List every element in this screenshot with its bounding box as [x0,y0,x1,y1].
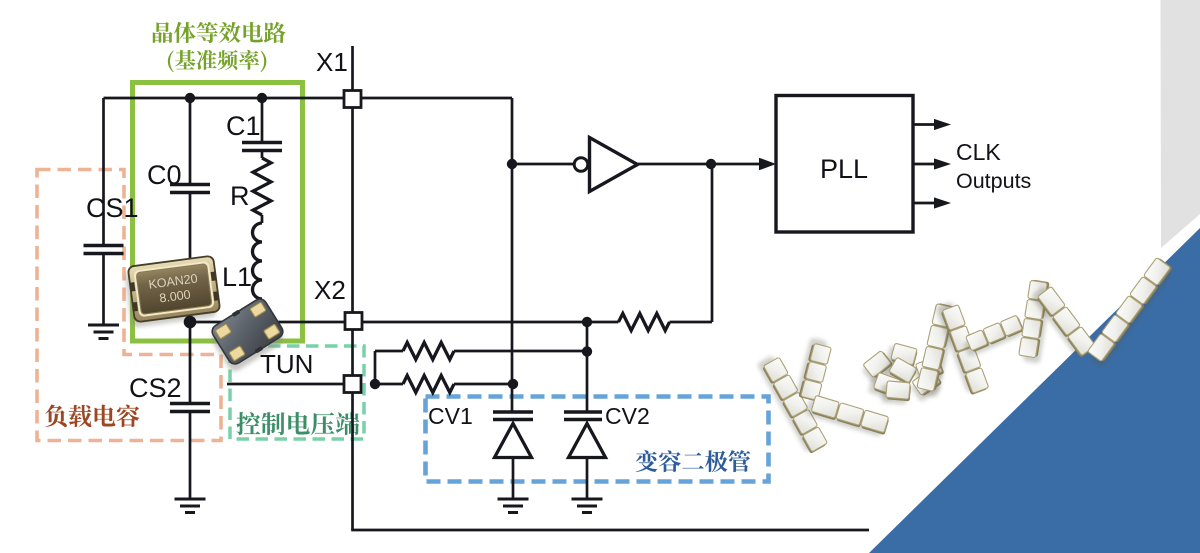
wire: CS1 to ground [102,254,105,326]
node: top bus / C1 [257,93,267,103]
node: lower R / CV1 [508,379,518,389]
resistor lower (to CV1) [403,376,454,393]
capacitor C0 [170,185,210,193]
inverter U1 triangle [590,138,638,192]
watermark letter A (crystal tiles) [921,307,958,398]
wire: inverter output to PLL [638,163,760,166]
ground: CS2 [175,499,206,513]
ground: CV2 [572,499,603,513]
svg-text:R: R [230,181,250,211]
inductor L1 [253,223,263,299]
wire: control line into TUN [227,383,344,386]
decorative gray corner pennant [1161,0,1200,248]
wire: drop from top bus to inverter input [511,98,514,164]
label (基准频率) [168,50,266,73]
wire: TUN down to bottom bus [351,393,354,531]
capacitor CS2 [170,404,210,412]
svg-text:TUN: TUN [260,349,313,379]
node: TUN [370,379,380,389]
wire: CS2 column [189,322,192,499]
arrow into PLL [759,158,776,171]
wire: lower R row [375,383,513,386]
svg-text:CLK: CLK [956,139,1001,165]
svg-text:PLL: PLL [820,154,868,184]
resistor feedback [619,314,670,331]
label 变容二极管 [636,450,751,472]
wire: C0 column [189,98,192,322]
capacitor C1 [242,143,282,151]
node: top bus / C0 [185,93,195,103]
wire: CV2 column drop [586,322,589,412]
varactor CV2 [564,412,602,420]
wire: TUN node riser to upper R [374,351,377,384]
resistor upper (to CV2) [403,343,454,360]
capacitor CS1 [84,246,124,254]
arrow: CLK output 2 [913,163,935,166]
wire: X1 to X2 vertical [351,108,354,313]
wire: CV1 column drop [511,164,514,412]
arrow: CLK output 3 [913,202,935,205]
control voltage terminal box (teal dashed) [230,346,364,439]
label 负载电容 [45,405,139,428]
svg-text:C1: C1 [226,111,261,141]
node: inverter output [706,159,716,169]
svg-text:Outputs: Outputs [956,169,1031,193]
svg-text:CS2: CS2 [129,373,182,403]
svg-text:CS1: CS1 [86,193,139,223]
ground: CV1 [498,499,529,513]
wire: top bus from CS1 corner to inverter drop [104,97,513,100]
crystal photo: bottom view with pads [205,295,288,374]
svg-text:CV2: CV2 [605,403,650,429]
watermark letter N (crystal tiles) [1023,283,1052,364]
svg-text:CV1: CV1 [428,403,473,429]
svg-text:X1: X1 [316,47,348,77]
wire: X2 to TUN vertical [351,330,354,376]
watermark letter K (crystal tiles) [757,355,823,453]
varactor diode group box (blue dashed) [426,397,769,482]
varactor CV1 [493,412,533,420]
resistor R (motional) [253,158,271,215]
svg-text:C0: C0 [147,160,182,190]
pin TUN [344,376,361,393]
wire: motional arm column (C1-R-L1) [261,98,264,322]
crystal equivalent circuit box (green) [133,83,303,342]
wire: crystal bottom joining bar [190,321,346,324]
pin X1 [344,91,361,108]
watermark tile cluster (o) [885,342,918,371]
wire: X2 row to feedback resistor and up [362,164,712,322]
arrow: CLK output 1 [913,123,935,126]
ground: CS1 [88,325,119,339]
svg-text:X2: X2 [314,275,346,305]
load-capacitance group box (orange dashed) [37,170,221,441]
wire: X1 stub above pin [351,46,354,91]
PLL block U2 [776,96,913,233]
decorative blue corner triangle [869,228,1200,553]
svg-text:L1: L1 [222,262,252,292]
node: upper R / CV2 [582,346,592,356]
wire: inverter input [512,163,574,166]
pin X2 [345,313,362,330]
node: X2 row / CV2 column [582,317,592,327]
wire: upper R row [375,350,587,353]
label 晶体等效电路 [153,22,286,43]
node: crystal bottom [184,316,197,329]
wire: CS1 left vertical [102,98,105,246]
wire: bottom bus [351,529,869,532]
node: inverter input [507,159,517,169]
label 控制电压端 [236,412,359,435]
crystal photo: metal-can top view KOAN20 8.000 [124,256,221,328]
inverter U1 bubble [574,158,588,172]
